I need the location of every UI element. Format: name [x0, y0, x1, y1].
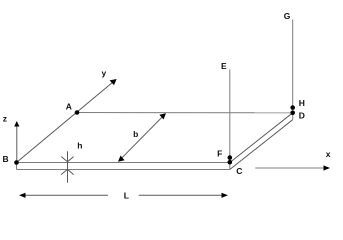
node A [75, 110, 80, 115]
svg-text:y: y [102, 68, 107, 78]
node D [290, 111, 295, 116]
svg-text:D: D [299, 111, 305, 121]
dimension h ticks [61, 151, 74, 183]
wire front top edge B-C [17, 162, 230, 164]
svg-text:L: L [124, 191, 129, 201]
wire front bottom edge [17, 169, 230, 171]
x axis [255, 165, 330, 170]
svg-text:A: A [66, 101, 72, 111]
svg-text:z: z [3, 114, 7, 124]
wire left edge vertical at B [16, 163, 18, 170]
node y axis arrowhead [110, 79, 117, 85]
svg-text:F: F [217, 149, 222, 159]
svg-text:E: E [221, 61, 227, 71]
wire diagonal edge B-A extended as y axis [17, 81, 115, 163]
wire vertical line E-F-C [229, 69, 231, 169]
node H [290, 105, 295, 110]
dimension L double arrow [19, 193, 228, 198]
z axis [14, 121, 19, 163]
wire top edge A-D [77, 112, 293, 114]
dimension arrow b [118, 113, 166, 162]
wire vertical line G-H-D' [292, 20, 294, 120]
svg-text:H: H [299, 98, 305, 108]
node B [14, 160, 19, 165]
wire diagonal bottom edge C'-D' [230, 120, 293, 170]
svg-text:h: h [77, 141, 82, 151]
svg-text:C: C [236, 166, 242, 176]
svg-text:B: B [3, 154, 9, 164]
node C top [228, 160, 233, 165]
svg-text:b: b [133, 129, 138, 139]
svg-text:G: G [284, 11, 291, 21]
wire diagonal edge C-D [230, 113, 293, 163]
node F [228, 155, 233, 160]
svg-text:x: x [326, 149, 331, 159]
